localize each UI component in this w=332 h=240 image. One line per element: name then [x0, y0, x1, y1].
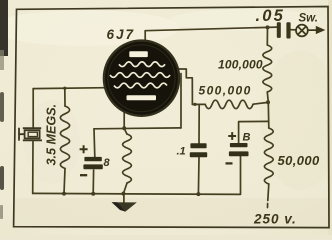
wire 50k bottom lead — [268, 184, 269, 208]
wire 100k top lead — [266, 27, 268, 45]
wire mic top lead — [32, 89, 34, 128]
jack/switch circle-X — [296, 25, 308, 37]
label C8 no1 plus — [80, 145, 88, 153]
output arrow — [308, 29, 317, 31]
node cathode junction — [122, 126, 126, 130]
node top junction — [266, 25, 270, 29]
label C8 no2 plus — [228, 132, 236, 140]
svg-text:.1: .1 — [177, 146, 186, 158]
wire 500k left lead — [192, 103, 205, 105]
capacitor C8 no2 (electrolytic) — [229, 143, 249, 156]
wire C.1 bottom lead — [197, 157, 200, 194]
resistor R 3.5 MEGS — [60, 106, 69, 168]
capacitor C8 no1 (electrolytic) — [83, 157, 102, 169]
wire C8 no2 top lead — [239, 121, 269, 143]
svg-text:6J7: 6J7 — [107, 27, 136, 42]
wire input grid horizontal — [33, 87, 106, 90]
svg-text:50,000: 50,000 — [278, 153, 321, 168]
resistor R 100,000 — [263, 45, 272, 92]
wire grid cap step from tube — [173, 69, 193, 104]
tube grid 1 — [119, 62, 165, 67]
resistor R 50,000 — [264, 128, 273, 184]
wire C.05 to jack — [291, 29, 296, 31]
capacitor C .1 — [190, 143, 207, 157]
tube cathode bar — [127, 95, 157, 100]
wire ground stub — [123, 194, 125, 203]
wire 3.5M top lead — [64, 88, 66, 106]
svg-text:500,000: 500,000 — [199, 84, 252, 98]
wire bottom bus — [33, 156, 241, 194]
wire 500k right lead — [253, 102, 268, 104]
wire 100k bottom to 50k top — [267, 92, 269, 128]
wire C.1 top lead — [198, 104, 200, 143]
wire 3.5M bottom lead — [64, 169, 65, 194]
wire C8 no1 bottom lead — [92, 170, 94, 194]
page edge artifact left — [0, 0, 8, 56]
svg-text:100,000: 100,000 — [218, 58, 263, 72]
wire mic bottom lead — [32, 142, 34, 194]
node bus dots — [62, 192, 66, 196]
wire top horizontal — [145, 27, 277, 31]
wire cathode lead — [124, 111, 127, 134]
node 500k junction — [266, 100, 270, 104]
label C8 no2 minus — [226, 162, 233, 164]
wire suppressor side — [180, 74, 182, 129]
svg-text:250 v.: 250 v. — [253, 212, 297, 227]
wire plate lead top — [144, 31, 146, 46]
node input junction — [63, 87, 66, 90]
wire cathode res bottom lead — [123, 183, 127, 194]
tube grid 3 — [114, 83, 167, 88]
wire C8 no1 top lead — [93, 129, 96, 157]
capacitor C .05 — [277, 22, 291, 38]
node grid junction — [193, 103, 196, 106]
svg-text:3.5 MEGS.: 3.5 MEGS. — [45, 104, 59, 166]
svg-text:8: 8 — [104, 157, 111, 169]
tube plate bar — [129, 51, 148, 57]
label C8 no1 minus — [80, 174, 87, 176]
resistor R 500,000 — [205, 100, 253, 108]
ground — [112, 202, 137, 212]
tube grid 2 — [110, 73, 170, 78]
svg-text:.05: .05 — [256, 7, 286, 25]
microphone crystal pickup — [19, 128, 42, 141]
svg-text:Sw.: Sw. — [299, 13, 318, 25]
tube 6J7 envelope — [104, 41, 179, 116]
svg-text:B: B — [243, 132, 251, 144]
resistor R cathode — [123, 134, 132, 183]
wire grid return horizontal — [94, 127, 181, 130]
